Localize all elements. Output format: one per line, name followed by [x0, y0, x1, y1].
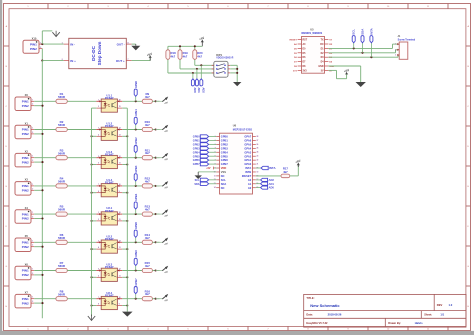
node junction [155, 241, 157, 243]
wire cathode to return chain [92, 276, 97, 278]
svg-text:PIN1: PIN1 [22, 269, 29, 273]
wire collector to junction [122, 129, 142, 131]
svg-text:GPB4: GPB4 [221, 150, 229, 154]
wire to opto anode [67, 185, 96, 187]
svg-text:INTA: INTA [245, 166, 251, 170]
svg-text:GPB5: GPB5 [221, 154, 229, 158]
svg-text:1: 1 [98, 99, 99, 101]
svg-text:1: 1 [98, 212, 99, 214]
node junction [155, 269, 157, 271]
+5V flag (angled) [156, 97, 169, 106]
svg-text:PIN2: PIN2 [22, 273, 29, 277]
svg-text:+5V: +5V [206, 167, 211, 170]
wire PIN1 to R7 [34, 270, 56, 272]
svg-text:26: 26 [257, 144, 259, 146]
wire PIN2 to bus [34, 189, 42, 191]
resistor R14 4k7 [142, 233, 152, 245]
svg-text:AD1: AD1 [269, 182, 275, 186]
svg-text:PC847: PC847 [105, 293, 114, 297]
wire PIN2 to bus [34, 133, 42, 135]
svg-text:4k7: 4k7 [145, 292, 150, 296]
svg-text:DC-DC: DC-DC [91, 45, 96, 60]
node junction [155, 100, 157, 102]
wire PIN2 to bus [34, 302, 42, 304]
wire junction to DC-DC IN+ [42, 60, 63, 62]
svg-text:3: 3 [98, 128, 99, 130]
svg-text:SDA: SDA [361, 28, 365, 35]
svg-text:IN +: IN + [70, 59, 76, 63]
node junction [126, 304, 128, 306]
svg-text:RESET: RESET [290, 40, 298, 42]
resistor R20 4k7 [193, 46, 203, 65]
svg-text:3: 3 [395, 55, 396, 57]
node junction [135, 128, 137, 130]
wire to +5V [152, 213, 159, 215]
+5V flag (angled) [156, 209, 169, 218]
wire collector to junction [122, 157, 142, 159]
net port INTA [369, 27, 373, 57]
svg-text:1: 1 [32, 184, 33, 186]
resistor R11 4k7 [142, 148, 152, 160]
wire emitter to ground rail [122, 248, 127, 250]
wire common bus (connector PIN2 rail) [41, 61, 43, 319]
net port GPB0 [134, 80, 138, 101]
net port GPB5 [134, 221, 138, 242]
svg-text:SCL: SCL [221, 178, 227, 182]
canvas grey edge strips [0, 0, 2, 335]
svg-text:1: 1 [40, 42, 41, 44]
connector X1 [15, 121, 34, 138]
net port GPB2 [134, 137, 138, 158]
svg-text:AD1: AD1 [197, 87, 201, 93]
svg-text:560R: 560R [58, 95, 66, 99]
wire cathode to return chain [92, 164, 97, 166]
wire cathode to return chain [92, 305, 97, 307]
svg-text:VSS: VSS [221, 170, 226, 174]
svg-text:SCL: SCL [195, 179, 200, 182]
ground flag (open arrow) [88, 316, 95, 320]
svg-text:5: 5 [98, 269, 99, 271]
svg-text:2: 2 [32, 160, 33, 162]
svg-text:GPB7: GPB7 [193, 163, 200, 166]
svg-text:INTA: INTA [369, 27, 373, 34]
wire to opto anode [67, 241, 96, 243]
svg-text:X10: X10 [32, 36, 37, 40]
svg-text:MCP23017-E/SO: MCP23017-E/SO [233, 128, 252, 131]
svg-text:7: 7 [98, 297, 99, 299]
svg-text:4k7: 4k7 [145, 236, 150, 240]
+5V flag VDD [206, 167, 216, 171]
wire OUT+ to +5V [132, 60, 151, 62]
wire PIN2 to bus [34, 105, 42, 107]
svg-text:1/1: 1/1 [440, 312, 444, 316]
connector X2 [15, 150, 34, 167]
wire emitter to ground rail [122, 276, 127, 278]
wire to +5V [152, 270, 159, 272]
svg-text:10: 10 [119, 297, 121, 299]
svg-text:PIN2: PIN2 [22, 301, 29, 305]
svg-text:GPB7: GPB7 [134, 278, 138, 286]
svg-text:GPB0: GPB0 [134, 80, 138, 88]
svg-text:2: 2 [395, 49, 396, 51]
svg-text:GND: GND [318, 66, 323, 68]
svg-text:GPB4: GPB4 [193, 151, 200, 154]
ground VSS [198, 171, 216, 173]
svg-text:12: 12 [119, 156, 121, 158]
svg-text:1: 1 [32, 128, 33, 130]
svg-text:28: 28 [257, 136, 259, 138]
svg-text:10: 10 [119, 184, 121, 186]
connector X3 [15, 178, 34, 195]
svg-text:X3: X3 [25, 178, 29, 182]
wire PIN2 to bus [34, 218, 42, 220]
svg-text:TITLE:: TITLE: [306, 296, 314, 300]
svg-text:1: 1 [32, 212, 33, 214]
svg-text:2: 2 [32, 301, 33, 303]
optocoupler U1.4 PC847 [96, 178, 122, 197]
svg-text:8: 8 [98, 304, 99, 306]
resistor R17 4k7 [281, 167, 290, 178]
optocoupler U2.1 PC847 [96, 206, 122, 225]
ground symbol [122, 312, 133, 317]
wire cathode to return chain [92, 192, 97, 194]
svg-text:U5: U5 [310, 27, 314, 31]
wire to +5V [152, 157, 159, 159]
wire collector to junction [122, 185, 142, 187]
wire D3 to J1 pin3 [328, 56, 398, 58]
svg-text:GPA1: GPA1 [244, 158, 251, 162]
DIP switch DIP1 VDG/S-03HG-R [212, 53, 234, 77]
svg-text:560R: 560R [58, 151, 66, 155]
svg-text:SDA: SDA [194, 183, 199, 186]
svg-text:GPB5: GPB5 [134, 221, 138, 229]
svg-text:2: 2 [62, 59, 63, 61]
svg-text:1: 1 [32, 297, 33, 299]
svg-text:PIN1: PIN1 [22, 241, 29, 245]
node junction [155, 185, 157, 187]
connector X0 [15, 93, 34, 110]
svg-text:SCL: SCL [352, 29, 356, 35]
svg-text:GPB2: GPB2 [193, 143, 200, 146]
svg-text:G: G [5, 266, 7, 268]
svg-text:PIN1: PIN1 [22, 100, 29, 104]
svg-text:2: 2 [32, 245, 33, 247]
svg-text:SDA: SDA [221, 182, 227, 186]
svg-text:5V: 5V [321, 70, 324, 72]
optocoupler U1.3 PC847 [96, 150, 122, 169]
net port AD2 [200, 65, 206, 93]
svg-text:PIN1: PIN1 [22, 212, 29, 216]
net port GPB1 [193, 139, 216, 143]
wire PIN1 to R8 [34, 298, 56, 300]
svg-text:Screw Terminal: Screw Terminal [398, 38, 416, 41]
svg-text:11: 11 [214, 175, 216, 177]
svg-text:PIN2: PIN2 [22, 132, 29, 136]
svg-text:15: 15 [119, 219, 121, 221]
svg-text:X6: X6 [25, 262, 29, 266]
node junction [41, 189, 43, 191]
wire emitter to ground rail [122, 192, 127, 194]
svg-text:1: 1 [62, 42, 63, 44]
svg-text:GPB6: GPB6 [134, 250, 138, 258]
svg-text:4k7: 4k7 [283, 170, 288, 174]
resistor R12 4k7 [142, 177, 152, 189]
svg-text:/RESET: /RESET [242, 174, 252, 178]
net port GPB7 [134, 278, 138, 299]
node junction [126, 248, 128, 250]
svg-text:U6: U6 [233, 124, 237, 128]
connector X5 [15, 234, 34, 251]
svg-text:27: 27 [257, 140, 259, 142]
svg-text:NC: NC [221, 174, 225, 178]
wire X10.PIN1 to DC-DC IN- [42, 43, 63, 45]
svg-text:4k7: 4k7 [183, 55, 188, 59]
+5V flag [149, 56, 151, 61]
node junction [135, 213, 137, 215]
wire OUT- to ground [132, 43, 136, 45]
ground symbol [131, 46, 140, 51]
svg-text:PIN1: PIN1 [22, 156, 29, 160]
svg-text:4k7: 4k7 [145, 123, 150, 127]
net port GPB6 [134, 250, 138, 271]
node junction [126, 192, 128, 194]
wire PIN2 to bus [34, 161, 42, 163]
svg-text:New Schematic: New Schematic [310, 303, 340, 308]
resistor R5 560R [56, 205, 67, 217]
wire PIN1 to R2 [34, 129, 56, 131]
wire +5V rail [168, 45, 202, 47]
svg-text:9: 9 [119, 304, 120, 306]
resistor R2 560R [56, 120, 67, 132]
net port SDA [361, 28, 365, 53]
svg-text:GPB6: GPB6 [193, 159, 200, 162]
net port GPB3 [193, 147, 216, 151]
svg-text:GPB2: GPB2 [134, 137, 138, 145]
wire D2 to J1 pin2 [328, 52, 395, 54]
resistor R13 4k7 [142, 205, 152, 217]
svg-text:GPB3: GPB3 [193, 147, 200, 150]
svg-text:560R: 560R [58, 208, 66, 212]
svg-text:X7: X7 [25, 291, 29, 295]
net port GPB4 [134, 193, 138, 214]
resistor R6 560R [56, 233, 67, 245]
svg-text:Sheet:: Sheet: [424, 312, 432, 316]
node junction [126, 220, 128, 222]
wires DIP to ground rail [230, 64, 237, 66]
svg-text:2: 2 [40, 47, 41, 49]
optocoupler U1.1 PC847 [96, 93, 122, 112]
svg-text:GPB0: GPB0 [193, 136, 200, 139]
node junction IN+ [41, 60, 43, 62]
wire collector to junction [122, 100, 142, 102]
svg-text:VDG/S-03HG-R: VDG/S-03HG-R [216, 57, 233, 60]
svg-text:PIN1: PIN1 [22, 297, 29, 301]
+5V flag (address pullup rail) [201, 40, 203, 46]
svg-text:GPA0: GPA0 [244, 162, 251, 166]
svg-text:13: 13 [119, 134, 121, 136]
svg-text:560R: 560R [58, 123, 66, 127]
wire PIN1 to R6 [34, 241, 56, 243]
wire GND to ground [328, 65, 360, 67]
svg-text:RST: RST [303, 40, 308, 42]
svg-text:1: 1 [32, 240, 33, 242]
svg-text:EasyEDA V5.7.22: EasyEDA V5.7.22 [306, 321, 328, 325]
wire /RESET to R17 [256, 175, 281, 177]
optocoupler U2.3 PC847 [96, 263, 122, 282]
svg-text:4k7: 4k7 [145, 264, 150, 268]
svg-text:4k7: 4k7 [145, 179, 150, 183]
svg-text:PIN1: PIN1 [22, 128, 29, 132]
resistor R1 560R [56, 92, 67, 103]
resistor R8 560R [56, 289, 67, 301]
node junction [41, 246, 43, 248]
svg-text:GPB3: GPB3 [221, 146, 229, 150]
svg-text:560R: 560R [58, 292, 66, 296]
svg-text:560R: 560R [58, 264, 66, 268]
wire 5V to +5V flag [328, 69, 336, 71]
node junction [155, 157, 157, 159]
node junction [90, 163, 92, 165]
node junction [90, 304, 92, 306]
svg-text:8: 8 [98, 191, 99, 193]
svg-text:1.0: 1.0 [449, 303, 453, 307]
svg-text:2: 2 [32, 273, 33, 275]
wire emitter to ground rail [122, 305, 127, 307]
svg-text:GPB0: GPB0 [221, 135, 229, 139]
optocoupler U2.4 PC847 [96, 291, 122, 310]
connector X10 [23, 36, 42, 53]
svg-text:VDD: VDD [221, 166, 227, 170]
svg-text:16: 16 [119, 212, 121, 214]
svg-text:2: 2 [98, 106, 99, 108]
svg-text:GPB2: GPB2 [221, 142, 229, 146]
svg-text:1: 1 [32, 99, 33, 101]
svg-text:OUT +: OUT + [116, 59, 125, 63]
wire to +5V [152, 129, 159, 131]
resistor R3 560R [56, 148, 67, 160]
wire R17 to +5V [290, 175, 299, 177]
node junction [41, 217, 43, 219]
node junction [90, 192, 92, 194]
net port AD1 [195, 69, 201, 93]
svg-text:PIN2: PIN2 [22, 217, 29, 221]
DC-DC step down module U9 [62, 38, 132, 68]
node junction [155, 298, 157, 300]
svg-text:11: 11 [119, 275, 121, 277]
svg-text:1: 1 [32, 269, 33, 271]
node junction [90, 276, 92, 278]
+5V flag (angled) [156, 238, 169, 247]
wire to +5V [152, 185, 159, 187]
svg-text:560R: 560R [58, 236, 66, 240]
net port GPB2 [193, 143, 216, 147]
wire collector to junction [122, 298, 142, 300]
svg-text:GPB5: GPB5 [193, 155, 200, 158]
net port INTA [256, 166, 277, 170]
svg-text:4k7: 4k7 [171, 55, 176, 59]
svg-text:GPB1: GPB1 [193, 140, 200, 143]
resistor R18 4k7 [166, 46, 176, 73]
screw terminal J1 [395, 35, 415, 59]
svg-text:TX: TX [321, 40, 324, 42]
node junction [126, 135, 128, 137]
wire to opto anode [67, 270, 96, 272]
wire PIN2 to bus [34, 274, 42, 276]
svg-text:1: 1 [32, 156, 33, 158]
wire to opto anode [67, 100, 96, 102]
net port AD1 [256, 182, 275, 186]
optocoupler U1.2 PC847 [96, 122, 122, 141]
svg-text:IN -: IN - [70, 42, 75, 46]
svg-text:GPA3: GPA3 [244, 150, 251, 154]
node junction [41, 274, 43, 276]
connector X6 [15, 262, 34, 279]
wire R18 to DIP [168, 72, 214, 74]
title block [304, 294, 466, 327]
node junctions [236, 68, 238, 70]
ground flag (open arrow) [52, 32, 59, 36]
svg-text:GPA7: GPA7 [244, 135, 251, 139]
svg-text:AD0: AD0 [269, 186, 275, 190]
svg-text:4k7: 4k7 [145, 208, 150, 212]
svg-text:WEMOS_WEMOS: WEMOS_WEMOS [301, 32, 322, 35]
wire to +5V [152, 298, 159, 300]
node junction [126, 276, 128, 278]
svg-text:GPA6: GPA6 [244, 139, 251, 143]
svg-text:Date:: Date: [306, 312, 313, 316]
wire emitter to ground rail [122, 135, 127, 137]
svg-text:X1: X1 [25, 121, 29, 125]
net port AD0 [256, 186, 275, 190]
connector X4 [15, 206, 34, 223]
svg-text:GPB3: GPB3 [134, 165, 138, 173]
node junction [41, 43, 43, 45]
wire cathode to return chain [92, 107, 97, 109]
node junction [41, 161, 43, 163]
svg-text:PC847: PC847 [105, 209, 114, 213]
module U5 WEMOS [290, 27, 335, 73]
+5V flag (angled) [156, 181, 169, 190]
resistor R16 4k7 [142, 289, 152, 301]
svg-text:X4: X4 [25, 206, 29, 210]
svg-text:11: 11 [119, 163, 121, 165]
svg-text:G: G [467, 266, 469, 268]
svg-text:A0: A0 [248, 186, 252, 190]
wire cathode to return chain [92, 220, 97, 222]
svg-text:4k7: 4k7 [145, 151, 150, 155]
wire emitter to ground rail [122, 164, 127, 166]
svg-text:INTA: INTA [269, 166, 276, 170]
svg-text:PC847: PC847 [105, 124, 114, 128]
resistor R4 560R [56, 177, 67, 189]
svg-text:Halvis: Halvis [415, 321, 423, 325]
svg-text:GPB7: GPB7 [221, 162, 229, 166]
svg-text:GPA4: GPA4 [244, 146, 251, 150]
svg-text:13: 13 [119, 247, 121, 249]
net port GPB4 [193, 151, 216, 155]
wire emitter to ground rail [122, 220, 127, 222]
svg-text:3: 3 [98, 240, 99, 242]
svg-text:Drawn By:: Drawn By: [388, 321, 401, 325]
svg-text:PIN2: PIN2 [22, 160, 29, 164]
net port SDA [194, 182, 216, 186]
wire D1 to J1 pin1 [328, 47, 392, 49]
net port GPB1 [134, 109, 138, 130]
node junction [155, 213, 157, 215]
wire collector to junction [122, 213, 142, 215]
net port AD0 [191, 73, 197, 93]
svg-text:21: 21 [257, 163, 259, 165]
